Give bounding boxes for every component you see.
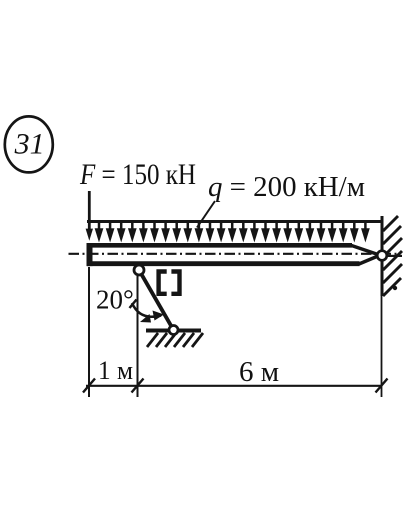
- wall line: [381, 216, 384, 296]
- extension line right (x=381.5): [381, 296, 383, 397]
- svg-text:1 м: 1 м: [98, 356, 133, 385]
- dash-dot centerline: [69, 253, 401, 255]
- distributed load arrows: [95, 223, 369, 241]
- top hinge: [134, 265, 144, 275]
- small speck below wall: [393, 286, 397, 290]
- tick left: [83, 379, 95, 393]
- tick middle: [132, 379, 144, 393]
- beam outline: [87, 243, 378, 266]
- ground line: [146, 329, 201, 333]
- ground hatching: [147, 333, 203, 347]
- dimension line: [86, 385, 382, 387]
- wall hatching: [383, 216, 402, 296]
- bottom hinge: [169, 326, 178, 335]
- wall pin: [377, 251, 387, 261]
- svg-text:20°: 20°: [96, 285, 134, 315]
- svg-text:31: 31: [14, 128, 45, 161]
- svg-text:F = 150 кН: F = 150 кН: [79, 158, 196, 191]
- svg-text:q = 200 кН/м: q = 200 кН/м: [208, 171, 365, 203]
- svg-text:6 м: 6 м: [239, 356, 279, 388]
- force arrow F: [86, 191, 93, 241]
- inclined rod: [139, 270, 174, 330]
- leader line from q label: [197, 201, 215, 228]
- angle arc arrow: [130, 300, 165, 323]
- bracket symbol [ ]: [159, 272, 180, 294]
- tick right: [376, 379, 388, 393]
- extension line left (x=89): [88, 267, 90, 397]
- distributed load line q: [87, 220, 381, 223]
- problem number circle 31: [5, 116, 53, 172]
- extension line middle (x=137.5): [137, 276, 139, 397]
- centerline stub right of pin: [388, 255, 403, 257]
